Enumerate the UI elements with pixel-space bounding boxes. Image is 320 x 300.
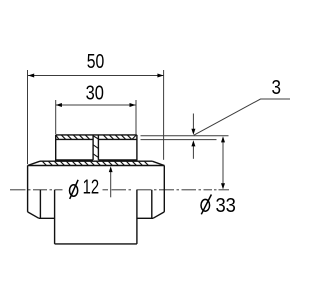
svg-text:30: 30 — [86, 83, 104, 105]
svg-text:33: 33 — [215, 195, 236, 217]
svg-text:3: 3 — [272, 77, 282, 99]
svg-text:50: 50 — [87, 51, 105, 73]
svg-text:12: 12 — [83, 177, 100, 199]
